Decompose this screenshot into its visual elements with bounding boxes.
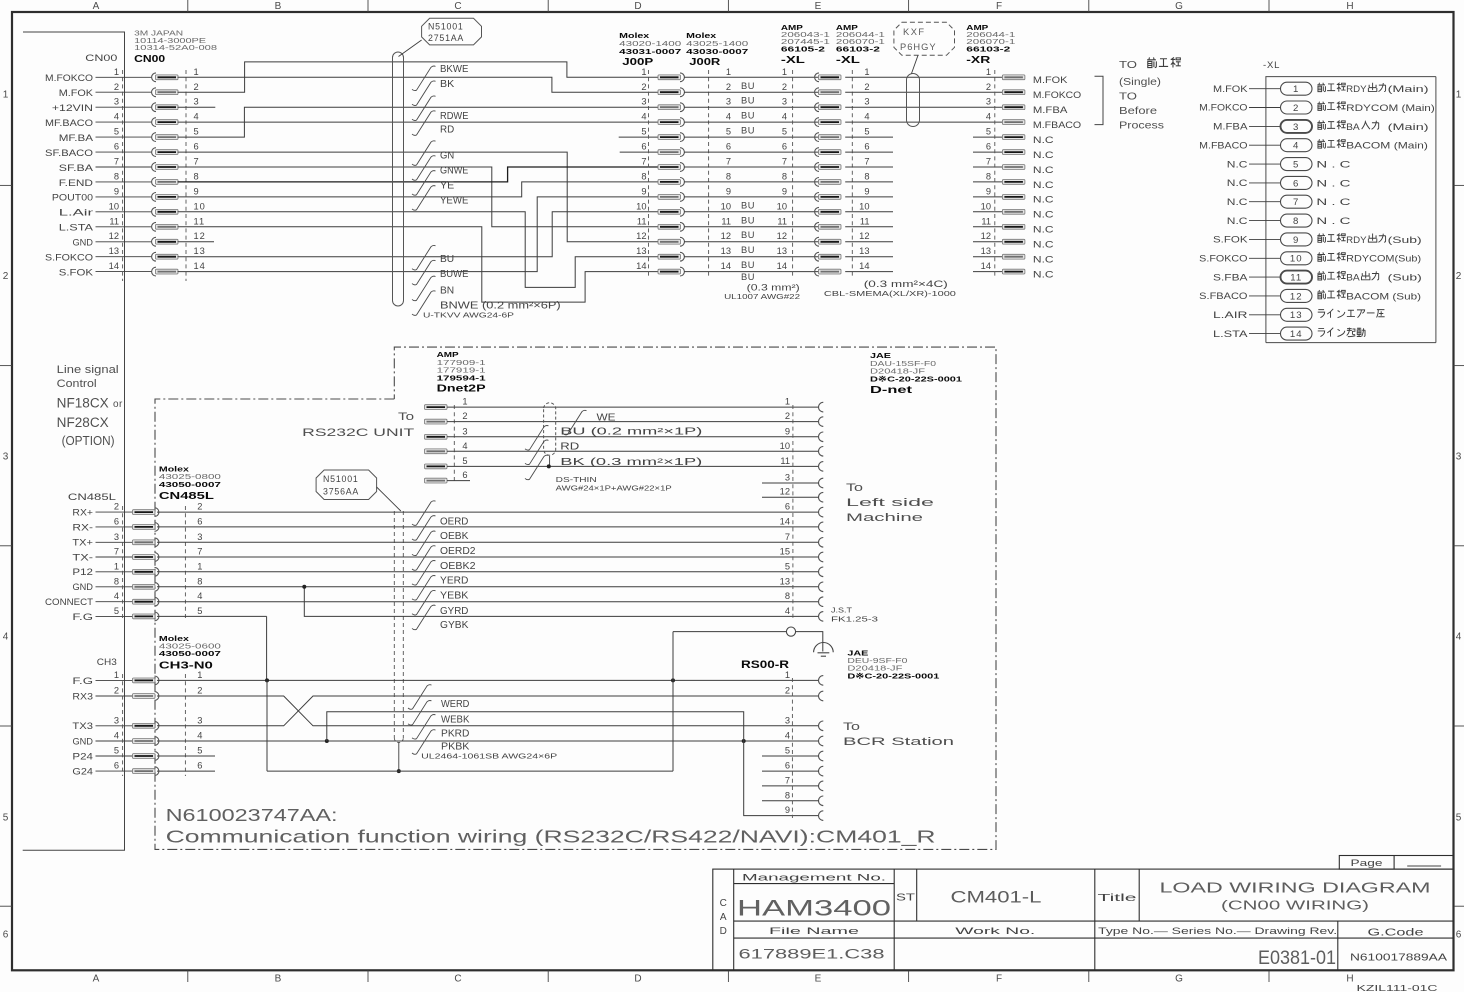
terminal pill 3 M.FBA (1213, 120, 1429, 133)
labels WERD WEBK PKRD PKBK (408, 685, 432, 710)
svg-text:M.FBACO: M.FBACO (1033, 120, 1081, 130)
svg-text:S.FBA: S.FBA (1213, 272, 1249, 282)
svg-text:SF.BACO: SF.BACO (45, 148, 93, 158)
svg-text:Communication function wiring: Communication function wiring (RS232C/RS… (166, 827, 936, 848)
svg-text:GND: GND (72, 238, 93, 248)
svg-text:1: 1 (194, 67, 200, 77)
svg-text:Machine: Machine (846, 512, 923, 524)
svg-text:M.FBA: M.FBA (1033, 105, 1068, 115)
svg-text:G24: G24 (72, 767, 93, 777)
balloon note N51001 2751AA (422, 18, 482, 45)
svg-text:13: 13 (109, 246, 119, 256)
svg-text:2: 2 (197, 502, 203, 512)
svg-text:5: 5 (197, 606, 203, 616)
svg-text:GYRD: GYRD (440, 606, 468, 617)
svg-text:3: 3 (726, 97, 731, 107)
shield drain to BK wire (549, 456, 551, 466)
wire M.FOK CN00-2 to J00P-1 (178, 62, 659, 92)
svg-text:11: 11 (721, 216, 731, 226)
svg-text:9: 9 (1293, 235, 1299, 246)
svg-text:43050-0007: 43050-0007 (159, 480, 221, 489)
svg-text:7: 7 (197, 547, 203, 557)
svg-text:7: 7 (1293, 197, 1299, 208)
svg-text:3: 3 (864, 97, 869, 107)
svg-text:2: 2 (986, 82, 991, 92)
svg-text:2: 2 (785, 686, 790, 696)
svg-text:5: 5 (114, 606, 119, 616)
svg-text:2: 2 (3, 271, 9, 282)
svg-text:7: 7 (785, 532, 790, 542)
svg-text:7: 7 (114, 157, 119, 167)
svg-text:12: 12 (721, 231, 731, 241)
terminal pill 6 N.C (1227, 176, 1351, 189)
wire WEBK branch GND to RS00-R-9 (327, 712, 819, 816)
svg-text:G: G (1175, 1, 1183, 12)
svg-text:3: 3 (785, 473, 790, 483)
svg-text:1: 1 (986, 67, 991, 77)
svg-text:SF.BA: SF.BA (59, 163, 94, 173)
svg-text:10: 10 (194, 201, 206, 211)
svg-text:6: 6 (785, 761, 790, 771)
wire GND branch to GYBK row (304, 587, 818, 617)
svg-text:9: 9 (726, 186, 731, 196)
svg-text:or: or (113, 399, 123, 410)
svg-text:11: 11 (981, 216, 991, 226)
svg-text:9: 9 (785, 805, 790, 815)
svg-text:NF18CX: NF18CX (57, 396, 109, 411)
svg-text:7: 7 (641, 157, 646, 167)
svg-text:10: 10 (859, 201, 869, 211)
svg-text:CH3: CH3 (97, 657, 117, 668)
svg-text:2: 2 (194, 82, 200, 92)
wire stub J00P-5 (619, 136, 658, 138)
svg-text:M.FOKCO: M.FOKCO (45, 73, 93, 83)
svg-text:N.C: N.C (1033, 240, 1054, 250)
svg-text:6: 6 (785, 502, 790, 512)
svg-text:N . C: N . C (1316, 197, 1351, 207)
svg-text:B: B (275, 1, 282, 12)
svg-text:1: 1 (462, 397, 467, 407)
svg-text:D※C-20-22S-0001: D※C-20-22S-0001 (870, 374, 963, 383)
wire L.Air CN00-10 to J00P-13 (178, 212, 659, 288)
svg-text:NF28CX: NF28CX (57, 415, 109, 430)
svg-text:N.C: N.C (1227, 159, 1248, 169)
svg-text:12: 12 (636, 231, 646, 241)
svg-text:RS232C UNIT: RS232C UNIT (302, 427, 414, 439)
svg-text:N.C: N.C (1033, 225, 1054, 235)
svg-text:Before: Before (1119, 105, 1157, 117)
wire POUT00 CN00-9 to J00P-8 (178, 182, 659, 197)
svg-text:C: C (454, 1, 461, 12)
svg-text:RD: RD (440, 124, 454, 135)
svg-text:5: 5 (641, 127, 646, 137)
svg-text:(Sub): (Sub) (1388, 273, 1422, 283)
svg-text:CN485L: CN485L (159, 491, 214, 502)
svg-text:2: 2 (1293, 103, 1299, 114)
wire S.FOK CN00-14 to J00P-9 (178, 197, 659, 272)
svg-text:1: 1 (726, 67, 731, 77)
svg-text:179594-1: 179594-1 (437, 374, 487, 383)
svg-text:WEBK: WEBK (441, 715, 470, 726)
wires J00R to -XL (684, 77, 819, 271)
svg-text:OEBK: OEBK (440, 531, 469, 542)
svg-text:F.END: F.END (59, 178, 94, 188)
svg-text:(CN00 WIRING): (CN00 WIRING) (1221, 899, 1369, 913)
svg-text:GND: GND (72, 582, 93, 592)
connector CN00 pins (45, 67, 206, 278)
-XL pins (777, 67, 870, 276)
svg-text:WE: WE (597, 413, 617, 424)
svg-text:8: 8 (986, 171, 991, 181)
svg-text:CN00: CN00 (85, 53, 117, 64)
svg-text:CBL-SMEMA(XL/XR)-1000: CBL-SMEMA(XL/XR)-1000 (824, 289, 956, 298)
svg-text:RD: RD (560, 442, 579, 453)
svg-text:(Sub): (Sub) (1388, 235, 1422, 245)
svg-text:4: 4 (726, 112, 731, 122)
svg-text:M.FBACO: M.FBACO (1199, 140, 1247, 150)
labels OERD group (412, 501, 476, 631)
svg-text:N51001: N51001 (428, 22, 464, 32)
wire Dnet2P pin6 stub (447, 480, 470, 482)
wire circle terminal riser (672, 632, 674, 772)
svg-text:4: 4 (864, 112, 869, 122)
svg-text:OEBK2: OEBK2 (440, 561, 476, 572)
wire +12VIN CN00-3 stub (178, 106, 216, 108)
svg-text:3: 3 (3, 452, 9, 463)
svg-text:66103-2: 66103-2 (836, 45, 880, 54)
svg-text:BU: BU (741, 111, 755, 121)
svg-text:F.G: F.G (72, 612, 93, 622)
svg-text:5: 5 (1293, 160, 1299, 171)
svg-text:1: 1 (641, 67, 646, 77)
BU wire labels at J00R (724, 81, 800, 301)
svg-text:4: 4 (114, 112, 119, 122)
svg-text:4: 4 (782, 112, 787, 122)
terminal pill 7 N.C (1227, 195, 1351, 208)
svg-text:(Main): (Main) (1388, 84, 1429, 94)
svg-text:Management No.: Management No. (742, 873, 886, 883)
svg-text:M.FOKCO: M.FOKCO (1033, 90, 1081, 100)
svg-text:11: 11 (109, 216, 119, 226)
svg-text:RDWE: RDWE (440, 111, 469, 122)
svg-text:PKRD: PKRD (441, 729, 469, 740)
svg-text:2: 2 (114, 82, 119, 92)
svg-text:Title: Title (1098, 892, 1137, 904)
svg-text:5: 5 (986, 127, 991, 137)
svg-text:11: 11 (780, 456, 790, 466)
svg-text:4: 4 (1293, 141, 1299, 152)
svg-text:12: 12 (194, 231, 206, 241)
terminal pill 11 S.FBA (1213, 271, 1422, 284)
svg-text:11: 11 (777, 216, 787, 226)
svg-text:UL1007 AWG#22: UL1007 AWG#22 (724, 292, 800, 301)
svg-text:G: G (1175, 974, 1183, 985)
svg-text:ST: ST (896, 892, 916, 904)
svg-text:10: 10 (777, 201, 787, 211)
svg-text:-XR: -XR (966, 54, 991, 66)
svg-text:14: 14 (109, 261, 119, 271)
svg-text:L.AIR: L.AIR (1213, 310, 1248, 320)
svg-text:RX+: RX+ (72, 508, 93, 518)
svg-text:N.C: N.C (1033, 165, 1054, 175)
svg-text:43030-0007: 43030-0007 (686, 47, 748, 56)
svg-text:1: 1 (864, 67, 869, 77)
svg-text:10314-52A0-008: 10314-52A0-008 (134, 43, 217, 52)
svg-text:6: 6 (197, 761, 203, 771)
svg-text:M.FBA: M.FBA (1213, 122, 1248, 132)
svg-text:6: 6 (197, 516, 203, 526)
svg-text:7: 7 (864, 157, 869, 167)
svg-text:8: 8 (114, 171, 119, 181)
svg-text:RDY: RDY (1346, 235, 1366, 245)
svg-text:4: 4 (785, 731, 790, 741)
svg-text:4: 4 (1456, 632, 1462, 643)
svg-text:4: 4 (194, 112, 200, 122)
svg-text:14: 14 (1290, 329, 1303, 340)
svg-text:TX-: TX- (72, 552, 93, 562)
bracket to before-process (1095, 76, 1104, 124)
svg-text:N.C: N.C (1033, 255, 1054, 265)
svg-text:2: 2 (1456, 271, 1462, 282)
svg-text:4: 4 (197, 591, 203, 601)
svg-text:BA: BA (1346, 122, 1361, 132)
svg-text:3: 3 (986, 97, 991, 107)
CH3 boundary dashed lines (122, 674, 124, 776)
svg-text:12: 12 (859, 231, 869, 241)
wire SF.BA CN00-7 to J00P-11 (178, 167, 659, 227)
svg-text:J00R: J00R (689, 56, 721, 68)
svg-text:6: 6 (462, 470, 467, 480)
svg-text:OERD: OERD (440, 516, 468, 527)
svg-text:BU (0.2 mm²×1P): BU (0.2 mm²×1P) (560, 427, 702, 438)
svg-text:10: 10 (1290, 254, 1303, 265)
svg-text:8: 8 (197, 576, 203, 586)
svg-text:D: D (720, 926, 727, 937)
jacket drain wire to FG rail (398, 743, 400, 772)
D-net boundary dashed line (792, 405, 794, 618)
svg-text:5: 5 (782, 127, 787, 137)
svg-text:6: 6 (194, 142, 200, 152)
svg-text:B: B (275, 974, 282, 985)
svg-text:13: 13 (777, 246, 787, 256)
svg-text:RX-: RX- (72, 522, 93, 532)
svg-text:M.FOKCO: M.FOKCO (1199, 103, 1247, 113)
balloon note KXF P6HGY (894, 22, 955, 55)
svg-text:D: D (634, 974, 641, 985)
svg-text:GN: GN (440, 151, 454, 162)
svg-text:S.FOK: S.FOK (59, 267, 94, 277)
svg-text:N.C: N.C (1033, 269, 1054, 279)
svg-text:6: 6 (114, 761, 119, 771)
svg-text:YERD: YERD (440, 576, 468, 587)
svg-text:8: 8 (782, 171, 787, 181)
svg-text:BU: BU (741, 230, 755, 240)
svg-text:D-net: D-net (870, 385, 913, 396)
svg-text:BA: BA (1346, 273, 1361, 283)
svg-text:N . C: N . C (1316, 160, 1351, 170)
svg-text:M.FOK: M.FOK (1213, 84, 1248, 94)
svg-text:43031-0007: 43031-0007 (619, 47, 681, 56)
svg-text:14: 14 (777, 261, 787, 271)
svg-text:14: 14 (780, 516, 790, 526)
svg-text:(0.3 mm²×4C): (0.3 mm²×4C) (864, 279, 948, 289)
wire GND CH3-4 to RS00-R-4 (157, 740, 819, 742)
machine boundary line (23, 32, 125, 850)
svg-text:4: 4 (197, 731, 203, 741)
svg-text:N51001: N51001 (323, 474, 359, 484)
svg-text:8: 8 (1293, 216, 1299, 227)
CH3-N0 pins (72, 670, 203, 777)
svg-text:BU: BU (741, 260, 755, 270)
svg-text:N610017889AA: N610017889AA (1350, 953, 1448, 964)
leader to cable jacket (377, 487, 401, 511)
wires -XL to -XR rows 5-14 stubs (845, 137, 1002, 272)
svg-text:10: 10 (780, 441, 790, 451)
wire M.FOKCO CN00-1 to J00P-2 (178, 77, 659, 92)
wire to earth ground (796, 632, 823, 652)
RS00-R stub wires 5-8 (762, 755, 819, 757)
svg-text:(Single): (Single) (1119, 76, 1161, 88)
svg-text:N . C: N . C (1316, 216, 1351, 226)
svg-text:CM401-L: CM401-L (951, 889, 1042, 907)
svg-text:YEWE: YEWE (440, 196, 469, 207)
svg-text:10: 10 (109, 201, 119, 211)
frame column ticks top/bottom (187, 0, 189, 12)
wire G24 stub (157, 770, 215, 772)
svg-text:P12: P12 (72, 567, 93, 577)
wire F.G CN485L-5 down to CH3 FG net (157, 615, 267, 617)
svg-text:N . C: N . C (1316, 178, 1351, 188)
svg-text:3: 3 (782, 97, 787, 107)
svg-text:6: 6 (1456, 930, 1462, 941)
svg-text:6: 6 (3, 930, 9, 941)
svg-text:BCR Station: BCR Station (843, 736, 954, 748)
svg-text:4: 4 (114, 731, 119, 741)
svg-text:TX+: TX+ (72, 538, 93, 548)
wires CN485L to D-net (157, 512, 819, 602)
svg-text:3: 3 (194, 97, 200, 107)
svg-text:N.C: N.C (1227, 197, 1248, 207)
svg-text:12: 12 (109, 231, 119, 241)
terminal pill 14 L.STA (1213, 327, 1365, 340)
svg-text:3756AA: 3756AA (323, 487, 359, 497)
svg-text:H: H (1346, 974, 1353, 985)
svg-text:2: 2 (782, 82, 787, 92)
svg-text:1: 1 (785, 397, 790, 407)
svg-text:A: A (93, 1, 100, 12)
svg-text:1: 1 (114, 561, 119, 571)
svg-text:F: F (996, 1, 1002, 12)
wire GND CN00-12 stub (178, 241, 215, 243)
svg-text:4: 4 (986, 112, 991, 122)
svg-text:N610023747AA:: N610023747AA: (166, 805, 338, 825)
svg-text:C: C (720, 898, 727, 909)
frame row ticks left/right (0, 184, 12, 186)
svg-text:13: 13 (636, 246, 646, 256)
svg-text:1: 1 (3, 90, 9, 101)
svg-text:11: 11 (194, 216, 206, 226)
svg-text:(0.3 mm²): (0.3 mm²) (747, 282, 800, 292)
svg-text:BU: BU (741, 81, 755, 91)
terminal pill 13 L.AIR (1213, 308, 1385, 321)
-XL boundary dashed lines (792, 70, 794, 276)
svg-text:C: C (454, 974, 461, 985)
svg-text:F.G: F.G (72, 676, 93, 686)
svg-text:14: 14 (721, 261, 731, 271)
svg-text:BUWE: BUWE (440, 269, 469, 280)
svg-text:11: 11 (1290, 273, 1302, 284)
svg-text:E: E (815, 974, 822, 985)
svg-text:AWG#24×1P+AWG#22×1P: AWG#24×1P+AWG#22×1P (556, 484, 672, 493)
svg-text:FK1.25-3: FK1.25-3 (831, 615, 878, 624)
svg-text:14: 14 (194, 261, 206, 271)
svg-text:F: F (996, 974, 1002, 985)
balloon note N51001 3756AA (316, 470, 377, 500)
svg-text:CH3-N0: CH3-N0 (159, 661, 214, 672)
terminal pill 2 M.FOKCO (1199, 101, 1435, 114)
CN00 connector boundary dashed lines (122, 70, 124, 281)
svg-text:13: 13 (194, 246, 206, 256)
svg-text:S.FBACO: S.FBACO (1199, 291, 1247, 301)
svg-text:N.C: N.C (1033, 150, 1054, 160)
svg-text:BN: BN (440, 286, 454, 297)
svg-text:6: 6 (726, 142, 731, 152)
svg-text:7: 7 (726, 157, 731, 167)
svg-text:13: 13 (780, 576, 790, 586)
title block (713, 869, 1454, 970)
svg-text:S.FOK: S.FOK (1213, 235, 1248, 245)
svg-text:1: 1 (197, 561, 203, 571)
svg-text:N.C: N.C (1227, 178, 1248, 188)
svg-text:5: 5 (197, 746, 203, 756)
terminal pill 9 S.FOK (1213, 233, 1422, 246)
svg-text:Left side: Left side (846, 497, 934, 509)
svg-text:9: 9 (864, 186, 869, 196)
svg-text:2: 2 (641, 82, 646, 92)
svg-text:5: 5 (114, 127, 119, 137)
svg-text:3: 3 (785, 715, 790, 725)
wire stub J00P-6 (620, 151, 658, 153)
svg-text:To: To (843, 721, 860, 733)
terminal pill 8 N.C (1227, 214, 1351, 227)
svg-text:5: 5 (1456, 813, 1462, 824)
svg-text:2: 2 (462, 411, 467, 421)
svg-text:J00P: J00P (622, 56, 653, 68)
svg-text:7: 7 (986, 157, 991, 167)
svg-text:1: 1 (114, 67, 119, 77)
svg-text:5: 5 (114, 746, 119, 756)
terminal pill 4 M.FBACO (1199, 139, 1428, 152)
svg-text:9: 9 (782, 186, 787, 196)
svg-text:11: 11 (637, 216, 647, 226)
svg-text:13: 13 (981, 246, 991, 256)
svg-text:BU: BU (741, 272, 755, 282)
svg-text:M.FOK: M.FOK (1033, 75, 1068, 85)
svg-text:66105-2: 66105-2 (781, 45, 825, 54)
RS00-R boundary dashed line (791, 678, 793, 818)
svg-text:OERD2: OERD2 (440, 546, 476, 557)
svg-text:BU: BU (741, 126, 755, 136)
terminal pill 10 S.FOKCO (1199, 252, 1421, 265)
svg-text:6: 6 (114, 142, 119, 152)
wire TX3 to X-cross to RS00-R-2 (157, 696, 819, 726)
svg-text:4: 4 (785, 606, 790, 616)
svg-text:10: 10 (636, 201, 646, 211)
cable jacket dashed lines (393, 511, 395, 738)
svg-text:1: 1 (1456, 90, 1462, 101)
wire SF.BACO CN00-6 to J00P-12 (178, 152, 659, 242)
cable shield SMEMA capsule (907, 74, 920, 127)
